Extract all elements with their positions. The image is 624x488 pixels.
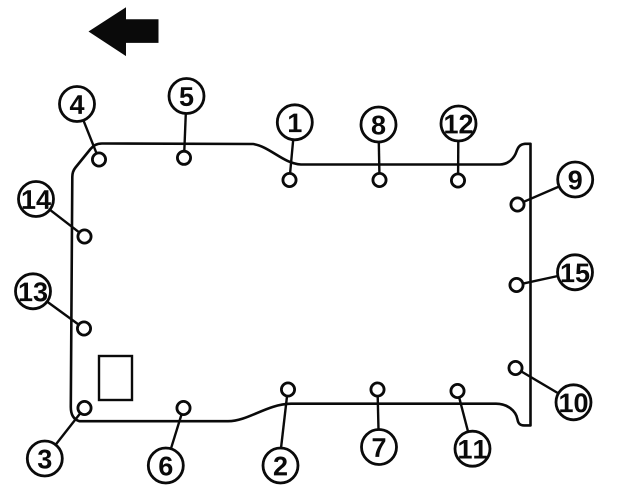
oil pan gasket outline [71, 144, 531, 426]
bolt hole 12 [451, 174, 464, 187]
callout balloon 11 [455, 431, 490, 466]
leader line 9 [524, 187, 559, 202]
callout balloon 9 [558, 162, 593, 197]
callout digit 7 [373, 438, 386, 457]
leader line 12 [457, 141, 460, 174]
bolt hole 2 [281, 383, 294, 396]
callout digit 4 [70, 95, 84, 114]
bolt hole 7 [371, 383, 384, 396]
leader line 4 [83, 120, 96, 153]
callout digit 12 [445, 114, 472, 133]
callout digit 6 [159, 456, 172, 475]
callout digit 14 [23, 190, 51, 209]
leader line 8 [378, 142, 381, 173]
bolt hole 9 [511, 198, 524, 211]
callout digit 9 [569, 170, 582, 189]
bolt hole 6 [177, 401, 190, 414]
callout balloon 6 [148, 448, 183, 483]
callout balloon 5 [169, 79, 204, 114]
bolt hole 3 [78, 401, 91, 414]
callout balloon 1 [277, 105, 312, 140]
callout balloon 12 [441, 106, 476, 141]
leader line 7 [377, 396, 380, 429]
callout balloon 13 [16, 274, 51, 309]
bolt hole 10 [509, 361, 522, 374]
bolt hole 11 [451, 384, 464, 397]
leader line 6 [171, 415, 182, 449]
callout digit 5 [180, 87, 193, 106]
callout digit 2 [274, 456, 287, 475]
callout digit 8 [372, 115, 385, 134]
callout balloon 15 [558, 255, 593, 290]
leader line 13 [47, 302, 78, 325]
callout digit 13 [20, 282, 47, 301]
callout digit 1 [289, 114, 302, 133]
leader line 5 [184, 114, 186, 152]
callout digit 10 [560, 393, 587, 412]
leader line 15 [523, 276, 558, 284]
bolt hole 4 [92, 153, 105, 166]
leader line 2 [281, 396, 287, 448]
callout digit 11 [459, 440, 487, 459]
callout balloon 3 [27, 441, 62, 476]
leader line 10 [521, 372, 558, 394]
callout balloon 4 [60, 87, 95, 122]
callout balloon 2 [263, 448, 298, 483]
callout balloon 10 [556, 385, 591, 420]
bolt hole 14 [78, 230, 91, 243]
bolt hole 8 [373, 173, 386, 186]
bolt hole 15 [510, 278, 523, 291]
bolt hole 5 [177, 151, 190, 164]
oil pump opening rectangle [99, 356, 132, 400]
bolt hole 1 [283, 173, 296, 186]
leader line 3 [56, 413, 81, 444]
callout balloon 8 [361, 107, 396, 142]
callout digit 3 [38, 449, 51, 468]
callout balloon 7 [362, 430, 397, 465]
leader line 14 [50, 210, 79, 233]
leader line 1 [290, 140, 293, 174]
callout digit 15 [562, 264, 590, 283]
bolt hole 13 [77, 322, 90, 335]
leader line 11 [459, 398, 468, 432]
callout balloon 14 [19, 182, 54, 217]
front direction arrow [89, 7, 159, 56]
